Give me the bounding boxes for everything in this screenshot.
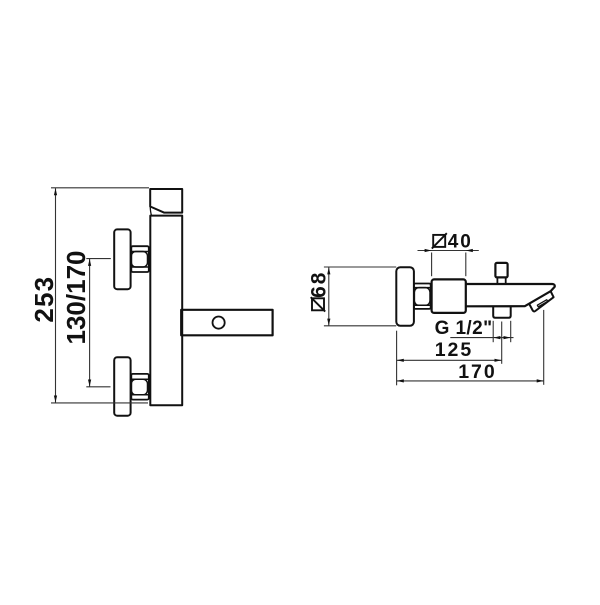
svg-text:68: 68 [307,271,330,298]
svg-text:125: 125 [435,339,474,361]
svg-text:253: 253 [29,276,59,323]
svg-text:G 1/2": G 1/2" [435,318,493,339]
svg-text:170: 170 [458,361,497,383]
svg-text:130/170: 130/170 [61,251,91,345]
svg-text:40: 40 [448,232,473,253]
